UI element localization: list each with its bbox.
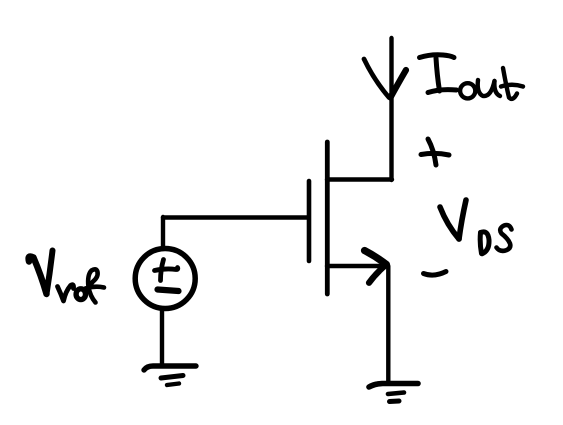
wire drain horizontal to transistor channel <box>327 177 392 181</box>
transistor M1 source arrow <box>365 251 387 283</box>
voltage source plus sign <box>155 260 178 281</box>
wire Vref top lead <box>161 217 165 247</box>
label Iout <box>420 55 524 99</box>
transistor M1 source horizontal wire <box>327 264 387 268</box>
ground (left, Vref) <box>144 366 196 385</box>
transistor M1 channel bar <box>325 142 330 294</box>
voltage source minus sign <box>158 290 179 292</box>
current arrow on Iout lead <box>364 59 406 98</box>
label plus (VDS polarity) <box>421 139 449 165</box>
wire drain vertical (Iout lead) <box>389 38 393 180</box>
wire gate to Vref <box>163 215 308 219</box>
voltage source Vref circle <box>135 249 195 309</box>
wire Vref bottom lead <box>160 310 164 366</box>
label Vref <box>29 251 104 303</box>
label VDS <box>440 200 512 254</box>
transistor M1 gate bar <box>307 181 312 261</box>
label minus (VDS polarity) <box>424 272 447 276</box>
ground (right, source) <box>369 384 418 402</box>
wire source to ground <box>386 266 390 383</box>
